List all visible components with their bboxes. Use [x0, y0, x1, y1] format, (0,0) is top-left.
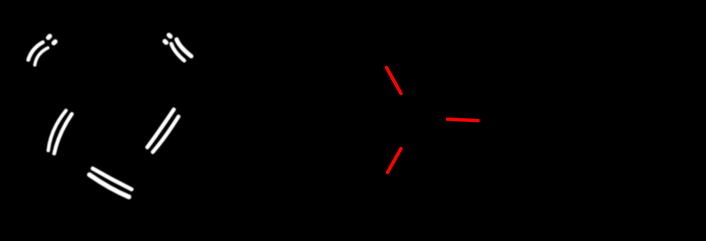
benzene ring: bottom double bond arc: [89, 169, 131, 197]
benzene ring: top-left bond white end caps: [48, 36, 55, 43]
benzene ring: top-left double bond (white cased pair): [28, 42, 48, 65]
benzene ring: top-right double bond (white cased pair): [171, 39, 191, 60]
benzene ring: right double bond arc: [147, 110, 178, 153]
O-C red bond (horizontal): [448, 119, 479, 120]
C-O red bond (lower): [388, 149, 402, 173]
carbonyl C=O red bond (upper): [387, 68, 402, 94]
benzene ring: left double bond arc: [48, 111, 72, 154]
benzene ring: top-right bond white end caps: [165, 35, 171, 43]
